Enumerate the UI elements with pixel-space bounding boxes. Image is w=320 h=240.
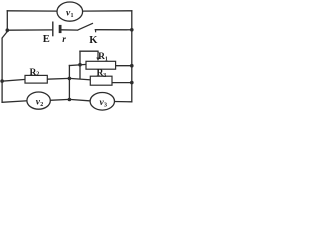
junction dot R1 right border: [130, 64, 134, 68]
battery long plate: [52, 22, 54, 37]
wire battery to switch: [62, 29, 78, 31]
wire left border upper: [6, 11, 8, 32]
wire node A horizontal: [69, 64, 86, 65]
junction dot R2 row left border: [0, 79, 4, 83]
junction dot node A: [78, 63, 82, 67]
svg-text:2: 2: [40, 102, 43, 108]
wire left border lower: [1, 39, 3, 102]
svg-text:r: r: [62, 35, 66, 45]
wire slider top: [80, 50, 98, 52]
wire bottom left: [2, 101, 27, 103]
switch contact tick: [95, 29, 97, 32]
svg-text:2: 2: [36, 71, 39, 77]
wire rail node A vertical: [79, 51, 81, 79]
voltmeter V3: [90, 93, 114, 111]
switch K: [77, 23, 98, 46]
slider arrow of R1: [97, 51, 99, 58]
svg-text:3: 3: [104, 103, 107, 109]
junction dot R3 right border: [130, 81, 134, 85]
wire R1 right: [116, 65, 132, 67]
junction dot bottom row x69: [68, 98, 72, 102]
battery E r: [43, 22, 66, 46]
rheostat R1 box: [86, 51, 116, 69]
wire bottom right: [114, 101, 131, 103]
wire switch to right border: [95, 29, 132, 31]
wire battery row left: [7, 29, 52, 31]
svg-text:1: 1: [71, 13, 74, 19]
wire node vertical x69: [68, 66, 70, 100]
junction dot battery row right: [130, 28, 134, 32]
resistor R3 box: [90, 69, 112, 86]
wire bottom middle: [50, 99, 90, 101]
voltmeter V2: [27, 92, 50, 109]
svg-text:E: E: [43, 34, 50, 45]
wire right border: [131, 11, 133, 102]
wire R3 right: [112, 82, 132, 84]
svg-text:K: K: [89, 35, 98, 46]
wire top left: [7, 10, 57, 12]
svg-text:1: 1: [105, 57, 108, 63]
wire top right: [83, 10, 132, 12]
svg-text:3: 3: [103, 73, 106, 79]
wire R2 row right: [47, 78, 90, 79]
resistor R2 box: [25, 68, 47, 83]
wire R2 row left: [2, 79, 25, 81]
junction dot battery row left: [6, 28, 10, 32]
wire left border jog: [2, 32, 7, 39]
junction dot R2 row x69: [68, 77, 72, 81]
voltmeter V1: [57, 2, 83, 21]
battery short plate: [59, 25, 62, 33]
switch blade: [77, 23, 93, 30]
